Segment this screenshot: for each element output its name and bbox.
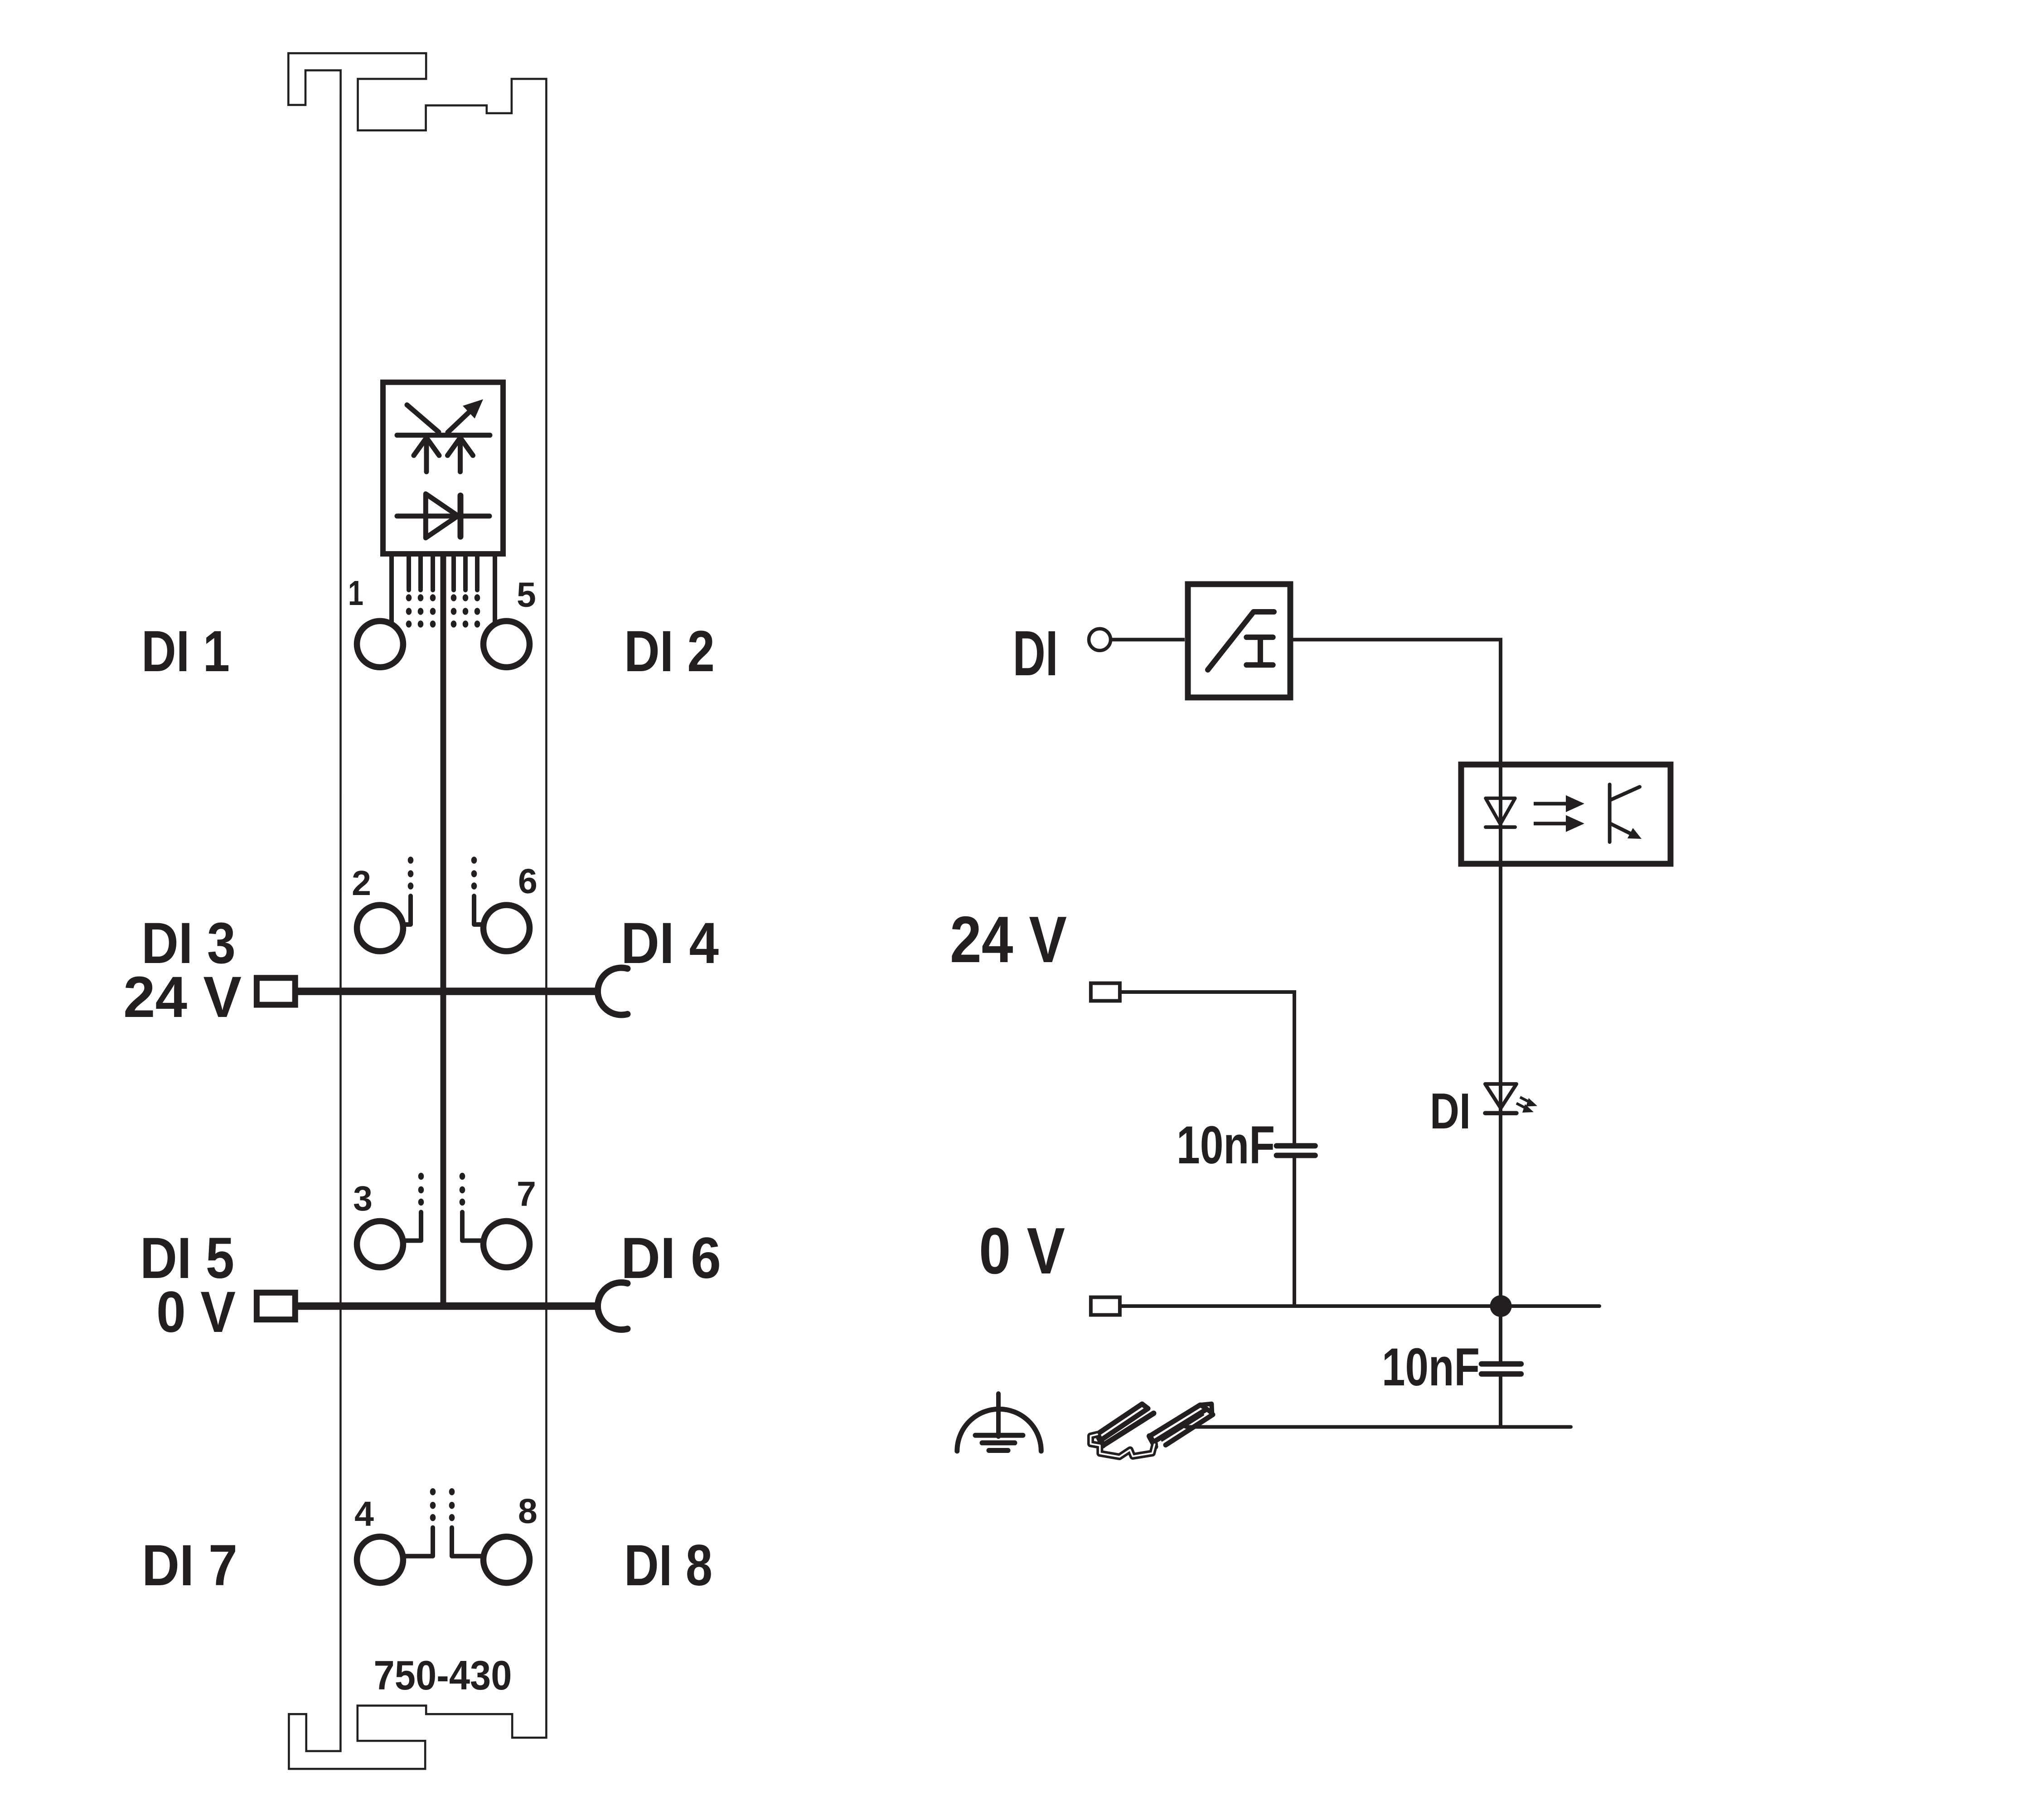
terminal 2 circle xyxy=(357,905,403,951)
svg-text:10nF: 10nF xyxy=(1177,1115,1275,1175)
opto-isolator U1 reflected beam arrowhead xyxy=(463,399,483,419)
DI 4 connector arc xyxy=(598,968,628,1015)
0V rail wire (schematic) xyxy=(1120,1304,1599,1308)
opto-isolator U1 diode D1 triangle xyxy=(426,494,458,538)
0V power rail wire xyxy=(295,1302,601,1310)
dotted lead continuation dots xyxy=(406,594,480,628)
DI status LED triangle xyxy=(1485,1084,1516,1108)
svg-text:24 V: 24 V xyxy=(123,965,242,1030)
opto-isolator U1 light arrow b xyxy=(448,438,473,472)
terminal 7 clamp hook xyxy=(460,1173,481,1241)
svg-text:8: 8 xyxy=(518,1492,538,1531)
24V input terminal square (schematic) xyxy=(1091,983,1120,1001)
wire capacitor C2 to shield rail xyxy=(1499,1374,1502,1427)
pin lead stub b xyxy=(418,557,423,590)
svg-text:1: 1 xyxy=(348,574,363,613)
junction node dot xyxy=(1490,1295,1512,1317)
wire capacitor C1 to 0V rail xyxy=(1293,1156,1296,1307)
capacitor C1 plates xyxy=(1277,1146,1315,1155)
DI 6 connector arc xyxy=(598,1283,628,1330)
DI input terminal circle (schematic) xyxy=(1089,629,1111,650)
DI status LED cathode bar xyxy=(1485,1111,1516,1115)
pin lead stub d xyxy=(451,557,456,590)
svg-text:DI 8: DI 8 xyxy=(624,1533,712,1598)
wire DI input to filter xyxy=(1111,638,1185,641)
terminal 3 clamp hook xyxy=(405,1173,424,1241)
opto-isolator U1 diode D1 line xyxy=(397,513,489,518)
svg-text:750-430: 750-430 xyxy=(374,1653,512,1699)
capacitor C2 plates xyxy=(1482,1364,1521,1374)
svg-text:DI: DI xyxy=(1013,617,1058,689)
svg-text:DI 7: DI 7 xyxy=(142,1533,237,1598)
0V field terminal square (module) xyxy=(257,1292,295,1319)
pin lead stub e xyxy=(463,557,468,590)
svg-text:2: 2 xyxy=(352,864,371,903)
DIN rail symbol xyxy=(1091,1404,1213,1457)
0V input terminal square (schematic) xyxy=(1091,1297,1120,1315)
pin lead stub c xyxy=(431,557,435,590)
input filter block xyxy=(1188,584,1290,697)
wire 24V to capacitor C1 xyxy=(1120,992,1294,1146)
terminal 6 circle xyxy=(484,905,530,951)
svg-text:DI 2: DI 2 xyxy=(624,619,715,684)
svg-text:0 V: 0 V xyxy=(156,1280,236,1345)
svg-text:0 V: 0 V xyxy=(979,1214,1065,1288)
pin 5 lead wire xyxy=(493,557,497,624)
svg-text:5: 5 xyxy=(517,576,536,615)
opto-isolator U1 receiver bar xyxy=(397,433,490,438)
optocoupler light arrow upper xyxy=(1534,795,1584,812)
terminal 4 clamp hook xyxy=(403,1488,436,1556)
filter ramp symbol xyxy=(1208,612,1274,670)
pin 1 lead wire xyxy=(389,557,394,624)
optocoupler light arrow lower xyxy=(1534,815,1584,832)
opto-isolator U1 incoming beam xyxy=(407,405,439,432)
24V power rail wire xyxy=(295,987,601,995)
svg-text:10nF: 10nF xyxy=(1382,1337,1480,1397)
svg-text:DI: DI xyxy=(1430,1083,1471,1139)
opto-isolator block U1 (module) xyxy=(383,382,503,554)
terminal 8 clamp hook xyxy=(449,1488,482,1556)
pin lead stub a xyxy=(407,557,411,590)
optocoupler phototransistor Q1 xyxy=(1610,784,1642,842)
shield/rail bottom wire xyxy=(1186,1425,1571,1429)
module 750-430 body outline xyxy=(288,53,546,1769)
terminal 2 clamp hook xyxy=(403,857,413,925)
DI status LED flash arrow a xyxy=(1520,1097,1537,1106)
terminal 5 circle xyxy=(484,621,530,667)
svg-text:3: 3 xyxy=(353,1179,373,1218)
24V field terminal square (module) xyxy=(257,978,295,1005)
filter I symbol xyxy=(1246,637,1273,665)
svg-text:4: 4 xyxy=(354,1495,374,1534)
terminal 8 circle xyxy=(484,1537,530,1583)
svg-text:DI 1: DI 1 xyxy=(141,619,230,684)
svg-text:24 V: 24 V xyxy=(950,903,1067,976)
wire filter to optocoupler node xyxy=(1290,639,1501,1306)
optocoupler box U2 xyxy=(1461,765,1671,864)
internal bus wire (center) xyxy=(441,557,446,1306)
optocoupler LED triangle xyxy=(1486,798,1515,824)
terminal 7 circle xyxy=(484,1221,530,1268)
terminal 4 circle xyxy=(357,1537,403,1583)
terminal 3 circle xyxy=(357,1221,403,1268)
terminal 1 circle xyxy=(357,621,403,667)
opto-isolator U1 light arrow a xyxy=(414,438,439,472)
opto-isolator U1 diode D1 cathode xyxy=(458,495,464,537)
pin lead stub f xyxy=(475,557,479,590)
svg-text:DI 6: DI 6 xyxy=(621,1226,721,1291)
optocoupler LED cathode bar xyxy=(1486,825,1515,829)
DI status LED flash arrow b xyxy=(1516,1104,1534,1113)
wire node to capacitor C2 xyxy=(1499,1306,1502,1364)
functional earth symbol xyxy=(957,1394,1041,1451)
svg-text:7: 7 xyxy=(517,1175,536,1214)
svg-text:DI 4: DI 4 xyxy=(621,911,719,976)
terminal 6 clamp hook xyxy=(471,857,481,925)
opto-isolator U1 reflected beam arrow xyxy=(448,407,474,432)
svg-text:6: 6 xyxy=(518,862,538,901)
